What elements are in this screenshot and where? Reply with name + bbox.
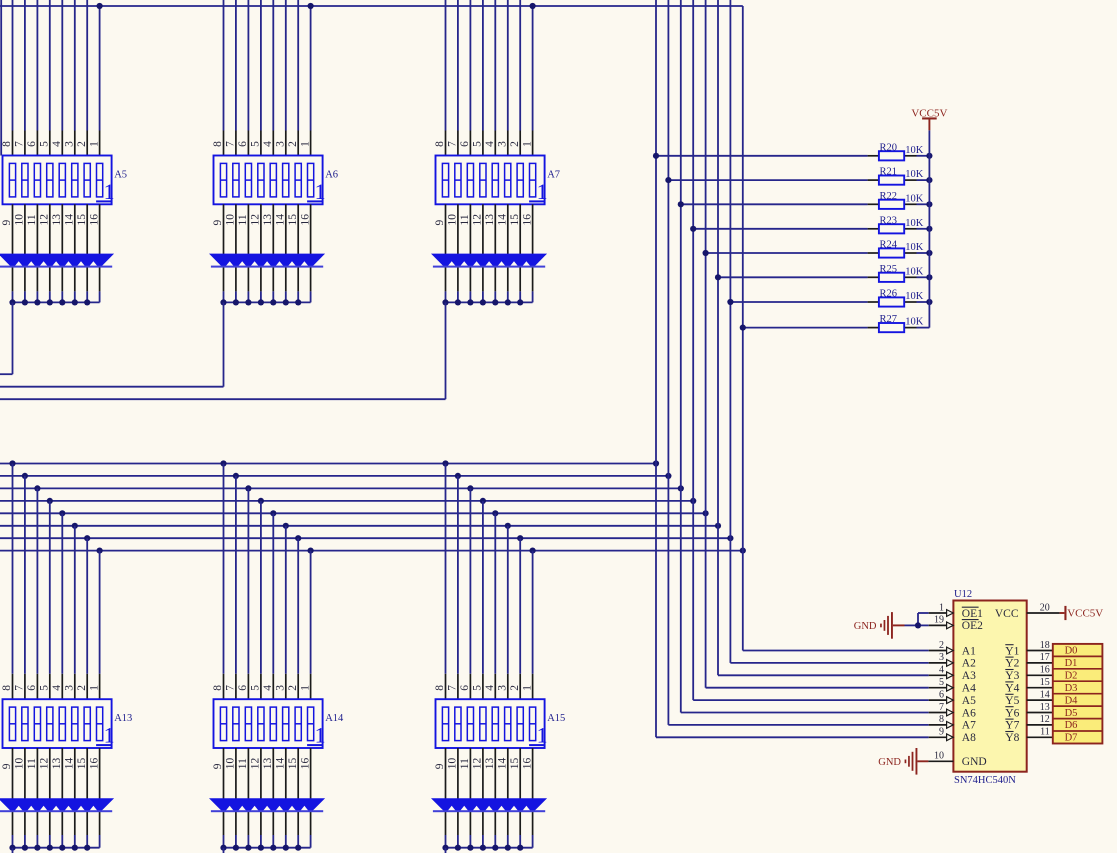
U12 pin names xyxy=(962,607,1020,768)
svg-text:10K: 10K xyxy=(905,242,924,253)
svg-text:17: 17 xyxy=(1040,652,1050,663)
svg-text:5: 5 xyxy=(472,685,484,691)
wire bus net to U12 A7 xyxy=(668,724,928,726)
wire GND to OE1/OE2 xyxy=(905,613,929,625)
junction node R26 right / VCC rail xyxy=(926,299,932,305)
svg-text:R27: R27 xyxy=(880,314,898,325)
svg-text:1: 1 xyxy=(315,179,326,204)
pin 5 A4 xyxy=(929,677,954,691)
svg-text:D3: D3 xyxy=(1065,683,1078,694)
svg-text:14: 14 xyxy=(1040,689,1050,700)
svg-text:A14: A14 xyxy=(325,713,344,724)
svg-text:R24: R24 xyxy=(880,240,898,251)
junction node R25 right / VCC rail xyxy=(926,274,932,280)
svg-text:1: 1 xyxy=(521,141,533,147)
DIP switch A5 body xyxy=(3,156,112,205)
svg-text:13: 13 xyxy=(484,214,496,226)
pin 4 A3 xyxy=(929,665,954,679)
diode array below A14 cathode bar xyxy=(211,810,323,812)
wire vertical net 4 (to off-sheet top) xyxy=(692,0,694,700)
junction nodes bus line 2 xyxy=(22,473,672,479)
svg-text:3: 3 xyxy=(274,685,286,691)
svg-text:A5: A5 xyxy=(114,170,127,181)
junction node R20 left tap xyxy=(653,153,659,159)
diode array below A15 cathode bar xyxy=(433,810,545,812)
svg-text:15: 15 xyxy=(509,214,521,226)
svg-text:4: 4 xyxy=(484,141,496,147)
junction node A7 pin1 / top bus xyxy=(530,3,536,9)
DIP switch A6 pin-1 marker xyxy=(307,179,326,204)
diode array below A13 cathode bar xyxy=(0,810,112,812)
DIP switch A14 pin-1 marker xyxy=(307,723,326,748)
pin numbers 9..16 of A14 xyxy=(212,757,311,769)
wires and leads of R23 xyxy=(693,228,929,230)
svg-text:16: 16 xyxy=(88,757,100,769)
svg-text:D1: D1 xyxy=(1065,658,1078,669)
svg-text:2: 2 xyxy=(287,685,299,691)
junction nodes A7 common row xyxy=(442,299,523,305)
diode array below A6 cathode bar xyxy=(211,266,323,268)
pins 9..16 of A15 (lower leads) xyxy=(446,748,533,835)
svg-text:12: 12 xyxy=(472,214,484,226)
pin 16 Y3 lead xyxy=(1027,665,1053,676)
svg-text:16: 16 xyxy=(1040,665,1050,676)
value 10K of R23 xyxy=(905,218,924,229)
svg-text:10: 10 xyxy=(14,214,26,226)
wire A5 common exit left xyxy=(0,302,13,374)
svg-text:10K: 10K xyxy=(905,193,924,204)
svg-text:4: 4 xyxy=(51,685,63,691)
svg-text:16: 16 xyxy=(521,757,533,769)
svg-text:2: 2 xyxy=(939,640,944,651)
junction nodes A15 common row xyxy=(442,845,523,851)
wire A15 common exit bottom xyxy=(445,848,447,853)
svg-text:GND: GND xyxy=(854,621,877,632)
pins 9..16 of A5 (lower leads) xyxy=(13,204,100,291)
junction nodes A5 common row xyxy=(9,299,90,305)
svg-text:R21: R21 xyxy=(880,167,898,178)
resistor R25 body xyxy=(879,273,904,282)
wires bus to A13 top pins xyxy=(13,464,100,674)
wire A6 common exit left xyxy=(0,302,224,386)
svg-text:5: 5 xyxy=(250,685,262,691)
junction node A5 pin1 / top bus xyxy=(97,3,103,9)
svg-text:10: 10 xyxy=(447,214,459,226)
junction node R22 left tap xyxy=(678,201,684,207)
svg-text:A1: A1 xyxy=(962,645,976,657)
DIP switch A15 pin-1 marker xyxy=(529,723,548,748)
junction nodes bus line 4 xyxy=(47,498,697,504)
svg-text:16: 16 xyxy=(521,214,533,226)
wire bus net to U12 A5 xyxy=(693,699,929,701)
wire bus line 6 xyxy=(0,525,718,527)
wires top pins of A6 xyxy=(224,0,311,131)
svg-text:12: 12 xyxy=(39,214,51,226)
designator A13 xyxy=(114,713,132,724)
svg-text:A8: A8 xyxy=(962,732,976,744)
svg-text:A6: A6 xyxy=(325,170,338,181)
svg-text:10: 10 xyxy=(934,751,944,762)
svg-text:10: 10 xyxy=(225,214,237,226)
svg-text:1: 1 xyxy=(88,685,100,691)
svg-text:6: 6 xyxy=(237,685,249,691)
pin 12 Y7 lead xyxy=(1027,714,1053,725)
pins 9..16 of A7 (lower leads) xyxy=(446,204,533,291)
wires A7 common row xyxy=(446,291,533,302)
wire bus net to U12 A1 xyxy=(743,650,929,652)
svg-text:6: 6 xyxy=(459,685,471,691)
svg-text:VCC: VCC xyxy=(995,608,1019,620)
svg-text:1: 1 xyxy=(104,723,115,748)
svg-text:Y1: Y1 xyxy=(1005,645,1019,657)
DIP switch A6 switch elements xyxy=(220,163,313,197)
svg-text:10K: 10K xyxy=(905,317,924,328)
wires top pins of A7 xyxy=(446,0,533,131)
svg-text:D5: D5 xyxy=(1065,708,1078,719)
svg-text:14: 14 xyxy=(496,757,508,769)
junction nodes A14 common row xyxy=(220,845,301,851)
svg-text:6: 6 xyxy=(26,141,38,147)
svg-text:3: 3 xyxy=(939,652,944,663)
DIP switch A5 switch elements xyxy=(9,163,102,197)
svg-text:6: 6 xyxy=(459,141,471,147)
pin numbers 9..16 of A15 xyxy=(434,757,533,769)
svg-text:10K: 10K xyxy=(905,266,924,277)
svg-text:9: 9 xyxy=(212,220,224,226)
svg-text:15: 15 xyxy=(76,214,88,226)
svg-text:D0: D0 xyxy=(1065,646,1078,657)
DIP switch A7 switch elements xyxy=(442,163,535,197)
svg-text:7: 7 xyxy=(14,685,26,691)
junction nodes bus line 1 xyxy=(9,460,659,466)
svg-text:D6: D6 xyxy=(1065,720,1078,731)
diode array below A7 (anode triangles) xyxy=(431,254,547,267)
resistor R20 body xyxy=(879,151,904,160)
wires A14 common row xyxy=(224,835,311,848)
svg-text:8: 8 xyxy=(212,685,224,691)
DIP switch A13 switch elements xyxy=(9,707,102,741)
pin 19 OE2 xyxy=(929,615,954,629)
part number SN74HC540N xyxy=(954,775,1016,786)
svg-text:10K: 10K xyxy=(905,218,924,229)
wire vertical net 2 (to off-sheet top) xyxy=(667,0,669,725)
svg-text:A7: A7 xyxy=(547,170,560,181)
pins 8..1 of A7 (upper leads) xyxy=(446,131,533,156)
svg-text:8: 8 xyxy=(939,714,944,725)
pin numbers 8..1 of A14 xyxy=(212,685,311,691)
diode array below A13 (anode triangles) xyxy=(0,798,114,811)
svg-text:10K: 10K xyxy=(905,169,924,180)
junction nodes A6 common row xyxy=(220,299,301,305)
svg-text:4: 4 xyxy=(939,665,944,676)
svg-text:8: 8 xyxy=(1,141,13,147)
svg-text:U12: U12 xyxy=(954,589,972,600)
junction node OE1/OE2 gnd xyxy=(915,622,921,628)
pin numbers 8..1 of A15 xyxy=(434,685,533,691)
svg-text:R25: R25 xyxy=(880,264,898,275)
label R24 xyxy=(880,240,898,251)
wire bus line 8 xyxy=(0,550,743,552)
svg-text:8: 8 xyxy=(212,141,224,147)
pin 8 A7 xyxy=(929,714,954,728)
pin 3 A2 xyxy=(929,652,954,666)
DIP switch A15 switch elements xyxy=(442,707,535,741)
value 10K of R25 xyxy=(905,266,924,277)
wires and leads of R25 xyxy=(718,276,929,278)
svg-text:5: 5 xyxy=(250,141,262,147)
svg-text:8: 8 xyxy=(434,685,446,691)
svg-text:OE1: OE1 xyxy=(962,608,983,620)
wire vertical net 8 (pin1 bus down) xyxy=(742,6,744,651)
svg-text:4: 4 xyxy=(262,141,274,147)
svg-text:3: 3 xyxy=(274,141,286,147)
wires and leads of R20 xyxy=(656,155,929,157)
svg-text:OE2: OE2 xyxy=(962,620,983,632)
designator A6 xyxy=(325,170,338,181)
svg-text:10: 10 xyxy=(225,757,237,769)
svg-text:Y7: Y7 xyxy=(1005,720,1019,732)
wires A6 common row xyxy=(224,291,311,302)
pin numbers 8..1 of A6 xyxy=(212,141,311,147)
pin 10 GND lead xyxy=(928,751,953,762)
svg-text:1: 1 xyxy=(88,141,100,147)
svg-text:13: 13 xyxy=(262,757,274,769)
svg-text:15: 15 xyxy=(1040,677,1050,688)
port D5 xyxy=(1053,706,1103,719)
value 10K of R22 xyxy=(905,193,924,204)
svg-text:12: 12 xyxy=(39,757,51,769)
pin 9 A8 xyxy=(929,727,954,741)
svg-text:A2: A2 xyxy=(962,658,976,670)
pin numbers 8..1 of A13 xyxy=(1,685,100,691)
svg-text:16: 16 xyxy=(299,214,311,226)
svg-text:2: 2 xyxy=(509,141,521,147)
svg-text:15: 15 xyxy=(509,757,521,769)
svg-text:7: 7 xyxy=(225,685,237,691)
pins 8..1 of A13 (upper leads) xyxy=(13,674,100,699)
wire vertical net 3 (to off-sheet top) xyxy=(680,0,682,713)
wire A13 common exit bottom xyxy=(12,848,14,853)
value 10K of R21 xyxy=(905,169,924,180)
port D3 xyxy=(1053,681,1103,694)
svg-text:6: 6 xyxy=(237,141,249,147)
svg-text:14: 14 xyxy=(274,214,286,226)
svg-text:2: 2 xyxy=(76,685,88,691)
junction nodes bus line 6 xyxy=(72,523,721,529)
svg-text:12: 12 xyxy=(472,757,484,769)
svg-text:9: 9 xyxy=(212,763,224,769)
wire net SW-row1 pin1 bus (top horizontal) xyxy=(0,5,743,7)
svg-text:9: 9 xyxy=(1,220,13,226)
svg-text:15: 15 xyxy=(76,757,88,769)
wires and leads of R22 xyxy=(681,203,930,205)
resistor R27 body xyxy=(879,323,904,332)
pin 13 Y6 lead xyxy=(1027,702,1053,713)
svg-text:8: 8 xyxy=(434,141,446,147)
wires top pins of A5 xyxy=(13,0,100,131)
wire bus line 7 xyxy=(0,537,730,539)
svg-text:13: 13 xyxy=(262,214,274,226)
svg-text:6: 6 xyxy=(26,685,38,691)
svg-text:A13: A13 xyxy=(114,713,132,724)
junction node R26 left tap xyxy=(727,299,733,305)
svg-text:16: 16 xyxy=(88,214,100,226)
wire bus line 2 xyxy=(0,475,668,477)
svg-text:Y8: Y8 xyxy=(1005,732,1019,744)
label R20 xyxy=(880,142,898,153)
ground GND (OE1/OE2) xyxy=(854,612,905,639)
wire bus net to U12 A6 xyxy=(681,712,929,714)
diode array below A5 (anode triangles) xyxy=(0,254,114,267)
port D7 xyxy=(1053,731,1103,744)
DIP switch A13 pin-1 marker xyxy=(96,723,115,748)
svg-text:10: 10 xyxy=(447,757,459,769)
pins 8..1 of A6 (upper leads) xyxy=(224,131,311,156)
svg-text:11: 11 xyxy=(459,758,471,769)
DIP switch A14 switch elements xyxy=(220,707,313,741)
port D2 xyxy=(1053,669,1103,682)
wire bus net to U12 A2 xyxy=(730,662,928,664)
IC U12 body xyxy=(953,601,1026,772)
svg-text:A5: A5 xyxy=(962,695,976,707)
wire bus line 4 xyxy=(0,500,693,502)
power VCC5V (U12 pin 20) xyxy=(1060,606,1104,620)
pins 8..1 of A5 (upper leads) xyxy=(13,131,100,156)
svg-text:1: 1 xyxy=(299,141,311,147)
port D0 xyxy=(1065,646,1078,657)
svg-text:1: 1 xyxy=(315,723,326,748)
power VCC5V (resistor rail) xyxy=(911,107,947,130)
pin 7 A6 xyxy=(929,702,954,716)
svg-text:R22: R22 xyxy=(880,191,898,202)
svg-text:A7: A7 xyxy=(962,720,976,732)
wires A5 common row xyxy=(13,291,100,302)
pin numbers 9..16 of A13 xyxy=(1,757,100,769)
svg-text:4: 4 xyxy=(262,685,274,691)
junction node R21 right / VCC rail xyxy=(926,177,932,183)
pin 20 VCC lead xyxy=(1027,602,1060,613)
svg-text:10K: 10K xyxy=(905,145,924,156)
resistor R24 body xyxy=(879,248,904,257)
pin 1 OE1 xyxy=(929,602,954,616)
junction node R24 right / VCC rail xyxy=(926,250,932,256)
svg-text:19: 19 xyxy=(934,615,944,626)
svg-text:5: 5 xyxy=(39,685,51,691)
svg-text:18: 18 xyxy=(1040,640,1050,651)
wire stray segment top-left xyxy=(0,0,2,156)
label R21 xyxy=(880,167,898,178)
svg-text:16: 16 xyxy=(299,757,311,769)
junction nodes bus line 5 xyxy=(59,510,709,516)
svg-text:3: 3 xyxy=(496,141,508,147)
junction node R23 left tap xyxy=(690,226,696,232)
svg-text:7: 7 xyxy=(447,141,459,147)
wire bus line 5 xyxy=(0,512,706,514)
label R25 xyxy=(880,264,898,275)
wire A14 common exit bottom xyxy=(223,848,225,853)
pin 18 Y1 lead xyxy=(1027,640,1053,651)
pin numbers 8..1 of A7 xyxy=(434,141,533,147)
svg-text:13: 13 xyxy=(1040,702,1050,713)
junction node R23 right / VCC rail xyxy=(926,226,932,232)
svg-text:R23: R23 xyxy=(880,215,898,226)
svg-text:A3: A3 xyxy=(962,670,976,682)
wire vertical net 5 (to off-sheet top) xyxy=(705,0,707,688)
svg-text:1: 1 xyxy=(537,723,548,748)
label R23 xyxy=(880,215,898,226)
svg-text:11: 11 xyxy=(237,758,249,769)
ports D0-D7 outer frame xyxy=(1053,644,1103,744)
svg-text:GND: GND xyxy=(962,756,987,768)
svg-text:R26: R26 xyxy=(880,289,898,300)
svg-text:1: 1 xyxy=(537,179,548,204)
junction nodes bus line 8 xyxy=(97,548,746,554)
junction node A6 pin1 / top bus xyxy=(308,3,314,9)
svg-text:14: 14 xyxy=(64,757,76,769)
diode array below A7 cathode bar xyxy=(433,266,545,268)
pins 9..16 of A6 (lower leads) xyxy=(224,204,311,291)
port D6 xyxy=(1053,719,1103,732)
DIP switch A5 pin-1 marker xyxy=(96,179,115,204)
svg-text:14: 14 xyxy=(274,757,286,769)
junction node R25 left tap xyxy=(715,274,721,280)
ground GND (pin 10) xyxy=(878,748,928,775)
diode array below A5 cathode bar xyxy=(0,266,112,268)
svg-text:9: 9 xyxy=(939,727,944,738)
wire bus net to U12 A3 xyxy=(718,674,929,676)
label R26 xyxy=(880,289,898,300)
wires A15 common row xyxy=(446,835,533,848)
designator A15 xyxy=(547,713,565,724)
resistor R22 body xyxy=(879,200,904,209)
svg-text:2: 2 xyxy=(76,141,88,147)
svg-text:5: 5 xyxy=(472,141,484,147)
pins 8..1 of A14 (upper leads) xyxy=(224,674,311,699)
svg-text:3: 3 xyxy=(496,685,508,691)
svg-text:2: 2 xyxy=(509,685,521,691)
svg-text:9: 9 xyxy=(1,763,13,769)
pin 15 Y4 lead xyxy=(1027,677,1053,688)
svg-text:9: 9 xyxy=(434,220,446,226)
svg-text:15: 15 xyxy=(287,757,299,769)
DIP switch A6 body xyxy=(214,156,323,205)
port D1 xyxy=(1053,656,1103,669)
svg-text:Y2: Y2 xyxy=(1005,658,1019,670)
label R22 xyxy=(880,191,898,202)
svg-text:9: 9 xyxy=(434,763,446,769)
svg-text:GND: GND xyxy=(878,757,901,768)
junction node R21 left tap xyxy=(665,177,671,183)
svg-text:7: 7 xyxy=(14,141,26,147)
wire vertical net 6 (to off-sheet top) xyxy=(717,0,719,675)
junction nodes A13 common row xyxy=(9,845,90,851)
designator A14 xyxy=(325,713,344,724)
designator A7 xyxy=(547,170,560,181)
svg-text:VCC5V: VCC5V xyxy=(1067,608,1103,620)
svg-text:11: 11 xyxy=(1040,727,1050,738)
svg-text:15: 15 xyxy=(287,214,299,226)
svg-text:A15: A15 xyxy=(547,713,565,724)
svg-text:D2: D2 xyxy=(1065,670,1078,681)
pin 14 Y5 lead xyxy=(1027,689,1053,700)
wires and leads of R24 xyxy=(706,252,930,254)
svg-text:VCC5V: VCC5V xyxy=(911,107,947,119)
wire vertical net 7 (to off-sheet top) xyxy=(729,0,731,663)
pins 9..16 of A13 (lower leads) xyxy=(13,748,100,835)
svg-text:7: 7 xyxy=(225,141,237,147)
wires bus to A15 top pins xyxy=(446,464,533,674)
wires and leads of R21 xyxy=(668,179,929,181)
